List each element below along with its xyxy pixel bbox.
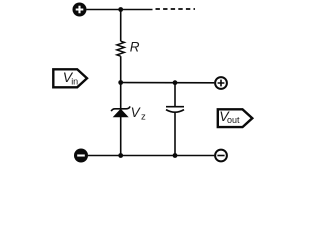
node mid-left junction [118,80,123,85]
node mid-right junction [173,80,178,85]
resistor R [117,41,124,56]
wire zener to bottom rail [120,117,122,156]
terminal TP4 (- output, open) [215,150,227,162]
wire resistor to mid junction [120,56,122,82]
wire bottom rail [88,155,214,157]
capacitor C1 (polarized) [166,107,184,113]
wire mid junction to zener [120,83,122,110]
terminal TP3 (- input, filled) [74,149,88,163]
node top junction [118,7,123,12]
wire mid-right junction to capacitor [174,83,176,107]
terminal TP1 (+ input, filled) [73,3,87,17]
svg-text:R: R [130,40,140,55]
svg-text:in: in [71,77,78,87]
wire dashed continuation [156,8,196,10]
wire from top junction to resistor [120,10,122,42]
node bottom-left junction [118,153,123,158]
wire mid rail to output [121,82,215,84]
label Vz [131,105,146,123]
label Vin (input flag) [53,69,87,87]
label Vout (output flag) [218,108,253,127]
svg-text:out: out [227,115,240,125]
svg-text:z: z [141,112,146,123]
terminal TP2 (+ output, open) [215,77,227,89]
zener diode Vz [111,106,130,117]
node bottom-right junction [173,153,178,158]
wire top rail [87,9,153,11]
wire capacitor to bottom rail [174,112,176,155]
